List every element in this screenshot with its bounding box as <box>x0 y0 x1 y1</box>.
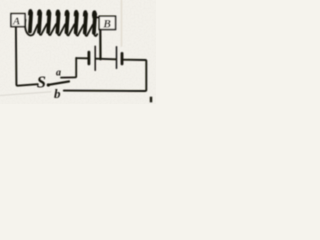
svg-text:S: S <box>37 73 46 92</box>
svg-text:A: A <box>12 16 20 28</box>
battery middle lead <box>96 58 116 61</box>
coil turn 1 <box>25 9 38 35</box>
terminal box A <box>11 14 25 28</box>
coil turn 7 <box>83 10 93 36</box>
artifact mark bottom-right <box>150 97 152 103</box>
wire from B box down to battery junction <box>99 30 101 60</box>
coil turn 8 <box>92 10 97 36</box>
coil turn 6 <box>74 10 84 36</box>
wire left side from A down and right to switch <box>16 27 38 86</box>
coil turn 2 <box>37 9 47 35</box>
terminal box B <box>99 16 115 30</box>
svg-text:B: B <box>102 19 111 31</box>
cell 2 long plate (positive) <box>116 47 118 69</box>
paper grain <box>0 0 156 104</box>
cell 1 short plate (negative) <box>88 52 91 64</box>
cell 1 long plate (positive) <box>94 46 96 70</box>
cell 2 short plate (negative) <box>121 53 124 64</box>
switch pivot <box>47 83 50 86</box>
coil turn 3 <box>46 9 56 35</box>
faint scan streak right <box>121 0 123 46</box>
coil L (8 turns) <box>25 9 97 36</box>
switch arm <box>49 81 70 84</box>
faint crease artifact bottom-left <box>0 92 51 96</box>
svg-text:b: b <box>54 86 61 101</box>
contact a hook wire up to battery <box>61 58 76 78</box>
svg-text:a: a <box>56 67 61 78</box>
wire stub from coil to B box <box>93 16 100 18</box>
battery left lead <box>76 57 87 59</box>
coil turn 4 <box>55 10 65 36</box>
battery right lead, right wire down, bottom wire to contact b <box>64 60 147 91</box>
coil turn 5 <box>65 10 75 36</box>
